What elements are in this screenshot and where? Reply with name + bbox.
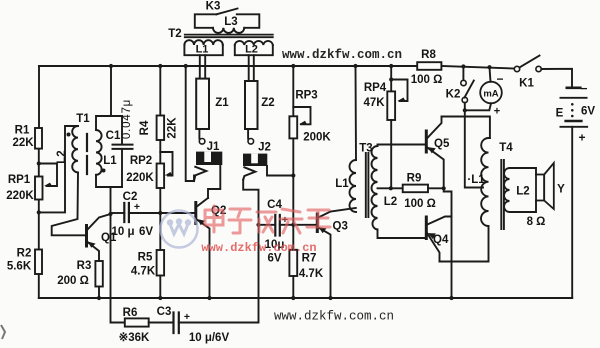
svg-text:mA: mA — [483, 89, 498, 100]
T2 core — [185, 35, 273, 38]
svg-text:T3: T3 — [359, 143, 372, 155]
switch K1 blade — [520, 56, 540, 68]
Q4 emitter — [427, 234, 439, 262]
svg-text:R8: R8 — [421, 49, 436, 61]
wire B collector supply — [442, 117, 490, 139]
switch K3 blade — [217, 9, 238, 15]
svg-text:22K: 22K — [167, 117, 179, 139]
wire J1 arm feed — [186, 66, 194, 181]
svg-text:K2: K2 — [446, 89, 461, 101]
svg-text:E: E — [556, 108, 564, 120]
jack J1 contact arm — [194, 167, 206, 181]
node C4 left junction — [256, 223, 260, 227]
svg-text:T2: T2 — [168, 28, 181, 40]
Q5 emitter PNP arrow — [428, 147, 436, 153]
node Q3 emitter rail junction — [328, 296, 332, 300]
capacitor C3 — [174, 313, 179, 334]
wire C4 left lead — [259, 224, 276, 226]
resistor R6 — [125, 318, 149, 326]
transistor Q5 base bar — [425, 131, 428, 152]
wire RP4 bottom lead to center tap — [390, 120, 392, 188]
transistor Q1 base bar — [85, 226, 88, 247]
wire T1 bottom lead — [110, 187, 112, 214]
transistor Q3 base bar — [316, 214, 319, 232]
svg-text:200 Ω: 200 Ω — [57, 275, 89, 287]
Q1 collector — [88, 214, 111, 230]
wire RP3 bottom lead — [292, 138, 294, 249]
svg-text:+: + — [134, 201, 140, 213]
wire RP3 wiper loop — [293, 107, 310, 124]
svg-text:K1: K1 — [519, 78, 534, 90]
jack J2 body — [243, 154, 267, 166]
svg-text:Q4: Q4 — [433, 234, 449, 246]
wire C3 to riser — [179, 225, 259, 323]
svg-text:+: + — [494, 106, 500, 118]
wire left rail mid — [38, 149, 40, 177]
transformer T4 secondary L2 winding — [504, 168, 509, 212]
svg-text:10 μ: 10 μ — [111, 226, 134, 238]
speaker Y driver — [536, 175, 544, 201]
svg-text:4.7K: 4.7K — [299, 268, 324, 280]
wire R3 bottom — [98, 287, 100, 299]
wire R4 top lead — [159, 66, 161, 116]
meter mA body — [480, 82, 502, 104]
switch K1 contacts — [514, 66, 519, 71]
wire T2 L2 leads to plug Z2 — [249, 55, 254, 81]
wire R7 bottom — [292, 276, 294, 298]
wire Q3 base lead — [293, 224, 316, 226]
Q2 collector — [197, 198, 208, 207]
wire battery to bottom rail — [571, 127, 573, 298]
svg-text:L1: L1 — [103, 155, 117, 167]
Q4 collector — [427, 217, 451, 225]
wire R4 to RP2 — [159, 140, 161, 164]
node J2-RP3 junction — [291, 173, 295, 177]
node R7 rail junction — [291, 296, 295, 300]
svg-text:220K: 220K — [6, 190, 34, 202]
Q5 emitter — [427, 148, 443, 189]
transistor Q4 base bar — [425, 217, 428, 239]
wire T1 top lead to rail — [110, 66, 112, 116]
capacitor C2 — [124, 203, 129, 222]
wire L2 to speaker top — [510, 168, 537, 175]
svg-text:L1: L1 — [196, 44, 209, 56]
wire Q2 base lead — [160, 212, 195, 214]
battery E — [567, 87, 581, 90]
svg-text:C3: C3 — [157, 306, 172, 318]
svg-text:RP2: RP2 — [130, 155, 152, 167]
svg-text:10 μ/6V: 10 μ/6V — [189, 332, 230, 344]
svg-text:R2: R2 — [17, 248, 32, 260]
wire left rail bottom — [38, 274, 40, 298]
svg-text:−: − — [496, 72, 503, 86]
svg-text:22K: 22K — [12, 137, 34, 149]
wire RP2 bottom — [159, 188, 161, 250]
wire J2 arm to C4 node — [243, 180, 258, 225]
svg-text:RP3: RP3 — [295, 90, 317, 102]
battery dots — [571, 103, 574, 106]
wire K2 bottom lead — [464, 103, 466, 111]
svg-text:0.047μ: 0.047μ — [121, 99, 133, 139]
node center tap junction — [389, 186, 393, 190]
svg-text:R3: R3 — [77, 260, 92, 272]
svg-text:L2: L2 — [516, 186, 529, 198]
wire R6 to C3 — [149, 322, 174, 324]
svg-text:C4: C4 — [267, 199, 282, 211]
resistor R9 — [403, 185, 428, 193]
svg-text:6V: 6V — [139, 226, 153, 238]
wire K2 top lead — [462, 67, 464, 81]
resistor R7 — [289, 250, 297, 276]
watermark red characters — [205, 206, 330, 233]
node R9 right junction — [442, 186, 446, 190]
node midpoint rail junction — [449, 296, 453, 300]
wire RP3 top lead — [292, 66, 294, 116]
plug Z1 — [196, 79, 209, 129]
jack J1 body — [196, 152, 222, 165]
node T1 L1 phase dot — [102, 169, 106, 173]
wire C2 left lead — [111, 212, 125, 214]
scan speck bottom left — [1, 325, 5, 339]
wire K1 to battery — [541, 69, 572, 88]
wire V2 to T4 center — [465, 117, 483, 188]
wire RP4 wiper loop — [391, 80, 407, 102]
svg-text:R9: R9 — [407, 173, 422, 185]
svg-text:RP1: RP1 — [8, 174, 31, 186]
wire T3 L2 center tap — [378, 187, 391, 189]
transformer T2 winding L1 — [184, 45, 222, 55]
svg-text:L2: L2 — [56, 150, 68, 163]
svg-text:200K: 200K — [303, 132, 331, 144]
svg-text:47K: 47K — [363, 97, 385, 109]
wire C1 branch lower — [121, 149, 123, 187]
Q4 emitter PNP arrow — [428, 233, 436, 239]
svg-text:R5: R5 — [138, 252, 153, 264]
wire T3 L1 top lead — [355, 66, 358, 160]
wire T3 L2 bottom to Q4 base — [378, 230, 426, 239]
svg-text:www.dzkfw.com.cn: www.dzkfw.com.cn — [274, 310, 394, 324]
node RP3 rail junction — [291, 64, 295, 68]
wiper arrow RP3 — [299, 121, 307, 125]
node R1-RP1 junction — [37, 161, 41, 165]
Q1 emitter PNP arrow — [88, 242, 96, 248]
resistor R5 — [157, 250, 165, 276]
node K2 rail junction — [461, 64, 465, 68]
wire Q4 emitter to T4 L1 bottom — [440, 226, 489, 262]
transformer T1 primary L2 winding — [72, 126, 78, 172]
wire RP1 wiper loop — [39, 164, 57, 187]
plug Z2 — [245, 81, 258, 129]
Q5 collector — [427, 117, 441, 139]
resistor R8 in rail — [417, 62, 441, 70]
wire C2 right lead — [129, 212, 160, 214]
wire meter top lead — [490, 67, 491, 82]
potentiometer RP2 — [157, 164, 165, 189]
svg-text:100 Ω: 100 Ω — [411, 74, 443, 86]
node Q2 emitter rail junction — [207, 296, 211, 300]
svg-text:L2: L2 — [245, 44, 258, 56]
svg-text:J1: J1 — [207, 141, 220, 153]
wire R5 bottom — [159, 276, 161, 299]
wire J2 right to RP3 line — [267, 166, 293, 176]
potentiometer RP1 — [35, 177, 43, 200]
wiper arrow RP1 — [44, 183, 52, 186]
watermark logo circle — [161, 211, 198, 248]
Q1 emitter — [88, 242, 100, 261]
speaker Y cone — [544, 163, 554, 209]
transformer T3 secondary L2 winding — [372, 146, 378, 230]
svg-text:J2: J2 — [258, 142, 271, 154]
wire top rail — [39, 65, 417, 67]
resistor R3 — [95, 261, 102, 287]
svg-text:Y: Y — [557, 184, 565, 196]
Q3 collector — [318, 208, 356, 218]
svg-text:K3: K3 — [206, 1, 221, 13]
wire RP4 top lead — [390, 66, 392, 91]
svg-text:R1: R1 — [15, 125, 30, 137]
svg-text:www.dzkfw.com.cn: www.dzkfw.com.cn — [201, 241, 316, 255]
node T1 top rail junction — [109, 64, 113, 68]
svg-text:www.dzkfw.com.cn: www.dzkfw.com.cn — [282, 48, 402, 62]
wire C1 branch upper — [121, 116, 123, 144]
wire R9 right lead — [428, 187, 444, 189]
T4 core — [501, 160, 504, 229]
Q2 emitter — [197, 220, 210, 299]
svg-text:8 Ω: 8 Ω — [527, 216, 546, 228]
wire T2 L1 leads to plug Z1 — [200, 55, 205, 78]
Q2 emitter PNP arrow — [197, 219, 205, 225]
wire emitter-collector midpoint jog — [444, 188, 452, 298]
svg-text:−: − — [580, 82, 587, 96]
potentiometer RP4 — [387, 91, 395, 120]
svg-text:Z1: Z1 — [215, 97, 229, 109]
resistor R1 — [35, 128, 42, 149]
svg-text:+: + — [184, 311, 190, 323]
node RP4 rail junction — [389, 64, 393, 68]
capacitor C4 — [275, 215, 280, 236]
svg-text:5.6K: 5.6K — [7, 261, 32, 273]
node K2 meter junction — [463, 108, 467, 112]
wire center tap to R9 — [391, 187, 403, 189]
wire left rail — [38, 66, 40, 128]
svg-text:6V: 6V — [581, 106, 595, 118]
svg-text:R6: R6 — [123, 307, 138, 319]
switch K2 blade — [465, 81, 474, 98]
svg-text:L2: L2 — [384, 196, 397, 208]
node T1 L2 phase dot — [67, 133, 71, 137]
jack J2 contact arm — [243, 167, 255, 179]
svg-text:220K: 220K — [126, 172, 154, 184]
svg-text:T1: T1 — [76, 113, 90, 125]
svg-text:C1: C1 — [106, 130, 121, 142]
transformer T3 primary L1 winding — [350, 160, 356, 212]
node meter rail junction — [487, 65, 491, 69]
wire meter bottom lead — [465, 103, 491, 110]
wire left rail lower — [38, 200, 40, 250]
node T3 rail junction — [353, 64, 357, 68]
transistor Q2 base bar — [194, 203, 197, 224]
svg-text:R4: R4 — [139, 120, 151, 135]
wire RP2 wiper loop — [160, 152, 172, 176]
wire T4 L1 top jog — [489, 137, 490, 139]
wire RP1 bottom to T1 L2 top lead — [39, 126, 78, 212]
svg-text:Z2: Z2 — [261, 97, 274, 109]
resistor R4 — [157, 116, 165, 141]
switch K2 contacts — [461, 80, 466, 85]
wire bottom rail — [39, 297, 572, 299]
resistor R2 — [35, 250, 42, 275]
wire feedback from Q1 collector node down — [111, 214, 125, 323]
wire T1 tank bottom edge — [96, 175, 122, 187]
svg-text:+: + — [578, 131, 585, 145]
node R5 rail junction — [158, 296, 162, 300]
wiper arrow RP4 — [398, 98, 406, 102]
node J1 rail junction — [184, 64, 188, 68]
wiper arrow RP2 — [165, 172, 173, 176]
wire L2 to speaker bottom — [510, 201, 537, 213]
wire Q1 base zigzag from L2 bottom — [52, 172, 85, 235]
wire T3 L2 top to Q5 base — [378, 145, 426, 147]
svg-text:4.7K: 4.7K — [131, 266, 156, 278]
node Q3 base junction — [291, 223, 295, 227]
svg-text:L1: L1 — [335, 178, 349, 190]
wire J1 right to Q2 collector — [208, 165, 220, 198]
capacitor C1 — [113, 145, 133, 149]
svg-text:L3: L3 — [224, 16, 237, 28]
transformer T2 winding L2 — [235, 45, 273, 55]
node RP1 bottom junction — [37, 210, 41, 214]
svg-text:※36K: ※36K — [119, 331, 150, 344]
svg-text:100 Ω: 100 Ω — [404, 198, 436, 210]
wire T1 tank top edge — [96, 116, 122, 130]
wire supply stub — [464, 110, 466, 116]
svg-text:T4: T4 — [499, 142, 513, 154]
node T1 bottom junction — [108, 212, 112, 216]
node R4 rail junction — [158, 64, 162, 68]
node R3 rail junction — [97, 296, 101, 300]
svg-text:Q3: Q3 — [333, 221, 348, 233]
inductor L3 box with winding — [195, 14, 217, 27]
svg-text:RP4: RP4 — [364, 82, 387, 94]
wire top rail right segment after R8 — [441, 66, 514, 69]
Q3 emitter PNP arrow — [319, 227, 327, 233]
potentiometer RP3 — [289, 116, 297, 138]
svg-text:Q5: Q5 — [434, 138, 450, 150]
node RP4 loop junction — [389, 77, 393, 81]
Q3 emitter — [318, 228, 330, 299]
T1 core — [86, 134, 88, 174]
svg-text:·L1: ·L1 — [467, 174, 485, 186]
transformer T4 primary L1 winding — [481, 138, 488, 226]
node C2-RP2-R5 junction — [158, 211, 162, 215]
T3 core — [366, 153, 369, 217]
wire C4 right lead — [280, 224, 294, 226]
transformer T1 secondary L1 winding — [96, 130, 102, 175]
